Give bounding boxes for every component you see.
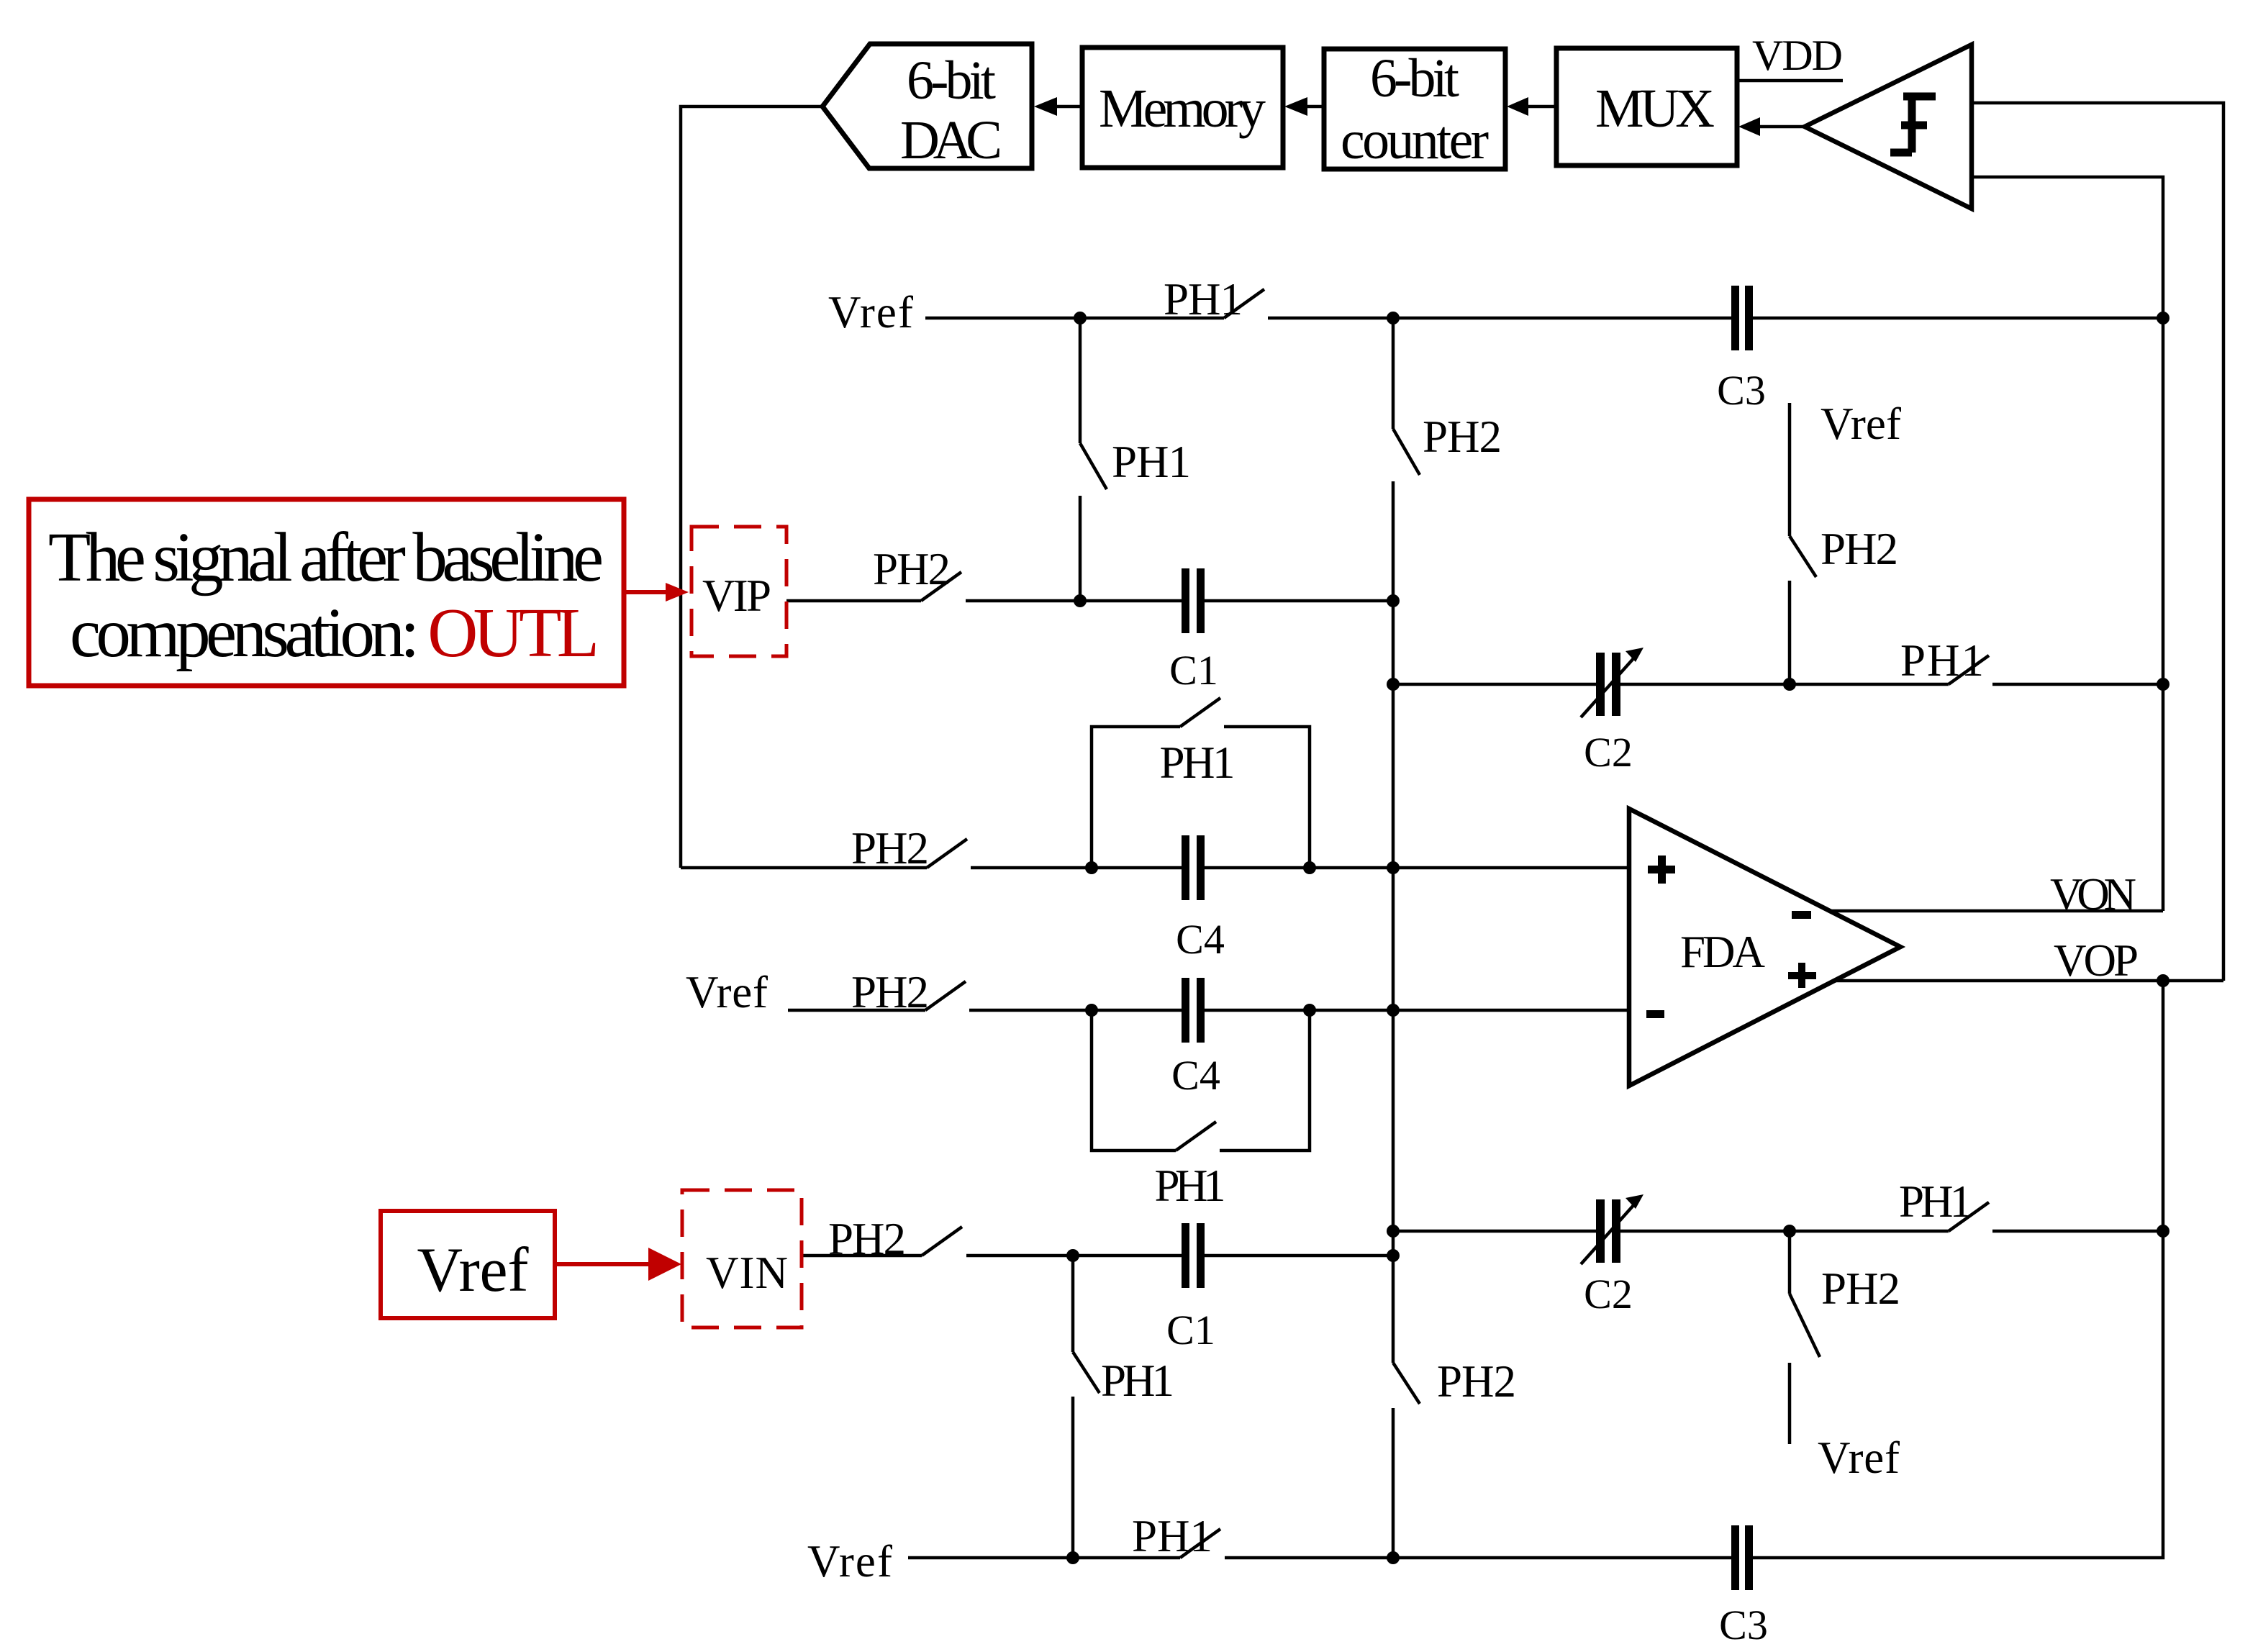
- svg-text:6-bit: 6-bit: [1370, 48, 1459, 109]
- svg-text:C2: C2: [1584, 729, 1633, 776]
- svg-text:PH1: PH1: [1132, 1511, 1212, 1561]
- svg-text:FDA: FDA: [1680, 927, 1766, 977]
- svg-text:DAC: DAC: [900, 110, 1002, 171]
- svg-text:PH2: PH2: [873, 544, 951, 594]
- svg-text:C2: C2: [1584, 1271, 1633, 1317]
- svg-text:VOP: VOP: [2054, 935, 2139, 986]
- svg-text:PH2: PH2: [1437, 1356, 1516, 1407]
- svg-text:PH1: PH1: [1112, 437, 1191, 487]
- svg-text:PH2: PH2: [1821, 524, 1898, 574]
- svg-text:PH1: PH1: [1101, 1356, 1174, 1406]
- svg-text:PH2: PH2: [1423, 412, 1502, 462]
- svg-text:MUX: MUX: [1595, 78, 1715, 139]
- svg-text:C4: C4: [1171, 1052, 1220, 1099]
- svg-text:VON: VON: [2050, 869, 2136, 920]
- svg-text:PH2: PH2: [828, 1214, 906, 1264]
- svg-text:Vref: Vref: [1818, 1433, 1900, 1483]
- svg-text:PH2: PH2: [1821, 1263, 1900, 1314]
- svg-text:PH1: PH1: [1160, 737, 1235, 788]
- svg-text:counter: counter: [1341, 110, 1489, 171]
- svg-text:VIP: VIP: [702, 571, 771, 621]
- svg-text:Vref: Vref: [1821, 399, 1901, 449]
- svg-text:compensation: OUTL: compensation: OUTL: [70, 594, 599, 671]
- svg-text:Vref: Vref: [686, 967, 768, 1017]
- svg-text:Vref: Vref: [807, 1536, 892, 1587]
- svg-text:Memory: Memory: [1099, 78, 1266, 139]
- svg-text:VIN: VIN: [706, 1248, 788, 1298]
- svg-text:6-bit: 6-bit: [907, 50, 996, 111]
- svg-text:Vref: Vref: [417, 1235, 530, 1305]
- svg-text:PH2: PH2: [851, 823, 929, 873]
- svg-text:C1: C1: [1169, 647, 1218, 694]
- svg-text:C3: C3: [1719, 1602, 1768, 1648]
- svg-text:C4: C4: [1176, 916, 1225, 963]
- svg-text:PH1: PH1: [1900, 635, 1984, 686]
- svg-text:PH1: PH1: [1164, 274, 1243, 324]
- svg-text:PH2: PH2: [851, 967, 929, 1017]
- svg-text:VDD: VDD: [1752, 32, 1843, 79]
- svg-text:C3: C3: [1717, 367, 1766, 414]
- svg-text:PH1: PH1: [1155, 1161, 1226, 1211]
- svg-text:PH1: PH1: [1899, 1176, 1972, 1227]
- svg-text:Vref: Vref: [828, 287, 913, 337]
- svg-text:C1: C1: [1166, 1307, 1215, 1353]
- svg-text:The signal after baseline: The signal after baseline: [48, 519, 604, 596]
